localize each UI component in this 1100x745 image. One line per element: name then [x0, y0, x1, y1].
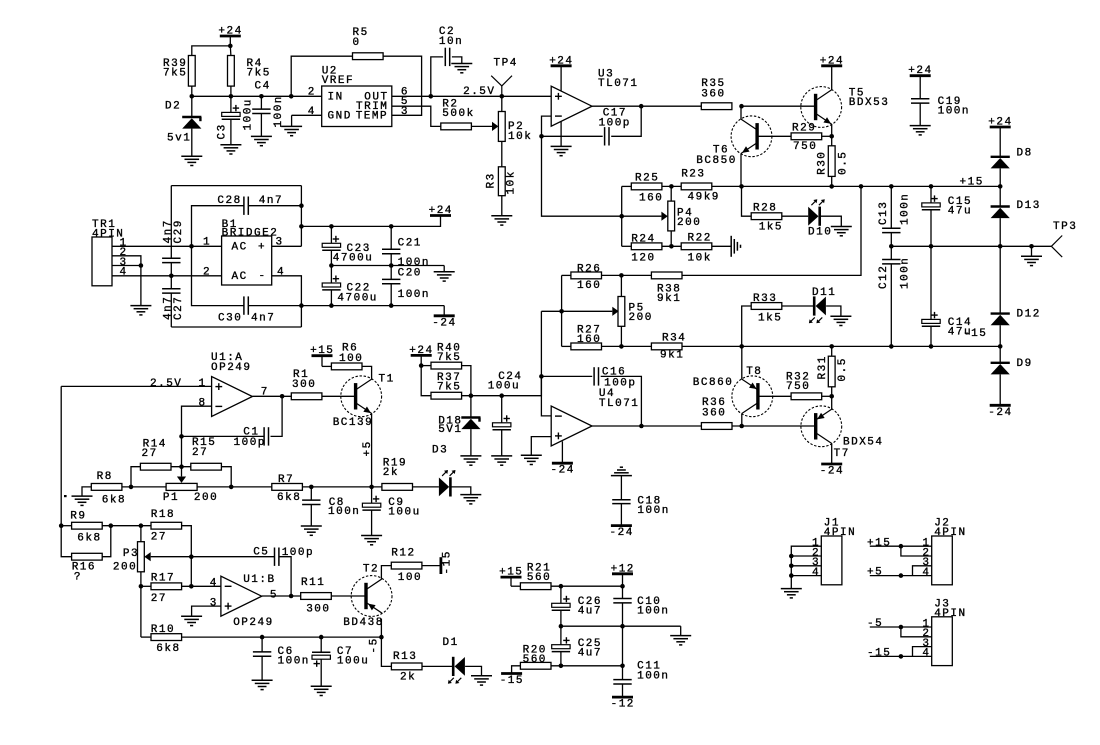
svg-text:6k8: 6k8	[277, 492, 301, 504]
svg-text:-15: -15	[442, 550, 454, 574]
svg-text:6k8: 6k8	[156, 643, 180, 655]
resistor R38 9k1	[651, 272, 682, 305]
svg-text:0: 0	[353, 37, 361, 49]
wire P5 bottom lead	[620, 326, 622, 346]
svg-text:+24: +24	[820, 55, 844, 67]
svg-text:100p: 100p	[282, 547, 314, 559]
junction R17 left	[139, 584, 144, 589]
wire U1A out	[252, 395, 291, 397]
junction C26 top	[559, 584, 564, 589]
wire 2.5V left vertical	[60, 386, 62, 525]
svg-text:BRIDGE2: BRIDGE2	[222, 227, 279, 239]
wire +15 row	[741, 185, 1000, 187]
svg-text:6k8: 6k8	[77, 533, 101, 545]
svg-text:C5: C5	[253, 547, 269, 559]
svg-text:1k5: 1k5	[758, 312, 782, 324]
svg-text:7k5: 7k5	[437, 352, 461, 364]
wire riser to P1 wiper	[181, 436, 183, 476]
power -24 rail right	[990, 404, 1011, 407]
svg-text:+15: +15	[310, 345, 334, 357]
svg-text:27: 27	[142, 448, 158, 460]
wire pins to gnd	[140, 266, 142, 306]
svg-text:100: 100	[339, 353, 363, 365]
svg-text:+12: +12	[611, 563, 635, 575]
junction R31 R32 T7	[829, 394, 834, 399]
svg-text:3: 3	[401, 106, 409, 118]
junction 2.5V node	[500, 94, 505, 99]
wire J3 pin1 -5	[870, 626, 932, 628]
wire to -24	[443, 306, 445, 316]
potentiometer P5 200	[612, 297, 653, 327]
svg-text:4: 4	[812, 567, 820, 579]
svg-text:C28: C28	[217, 195, 241, 207]
connector TR1 4PIN	[92, 219, 128, 286]
svg-text:-24: -24	[551, 465, 575, 477]
potentiometer P2 10k	[492, 112, 532, 143]
junction C11 top	[620, 624, 625, 629]
wire bottom frame	[171, 326, 301, 328]
svg-text:BC860: BC860	[693, 377, 734, 389]
wire to R28	[742, 186, 752, 216]
svg-text:4u7: 4u7	[578, 647, 602, 659]
svg-text:6k8: 6k8	[102, 495, 126, 507]
wire D10 cathode to gnd	[820, 216, 842, 226]
wire R4 bottom	[230, 86, 232, 96]
wire R33 to D11	[782, 305, 814, 307]
wire T8 collector down	[741, 414, 743, 427]
svg-text:100n: 100n	[328, 506, 360, 518]
svg-text:1: 1	[203, 237, 211, 249]
wire J2 pin1 +15	[870, 545, 932, 547]
svg-text:4: 4	[277, 266, 285, 278]
wire J2 pin4 +5	[870, 575, 932, 577]
junction U3 out	[639, 104, 644, 109]
ground C6	[252, 679, 273, 681]
svg-text:100u: 100u	[337, 656, 369, 668]
wire P5 top lead	[620, 275, 622, 296]
capacitor C26 4u7	[552, 586, 602, 626]
capacitor C30 4n7	[192, 246, 302, 324]
svg-text:100u: 100u	[388, 507, 420, 519]
wire R26 right	[602, 274, 622, 276]
wire U2 pin5 TRIM to R2	[392, 106, 441, 126]
svg-text:10k: 10k	[688, 252, 712, 264]
svg-text:C4: C4	[255, 81, 271, 93]
LED D10	[808, 199, 832, 238]
resistor R25 160	[631, 173, 663, 205]
svg-text:0.5: 0.5	[837, 357, 849, 381]
svg-text:1: 1	[199, 378, 207, 390]
junction	[259, 94, 264, 99]
junction P1 left	[129, 485, 134, 490]
wire T6 collector up	[740, 106, 742, 119]
junction P4 bottom	[669, 244, 674, 249]
wire D9 to -24	[999, 374, 1001, 405]
capacitor C7 100u	[312, 637, 369, 686]
svg-text:200: 200	[677, 217, 701, 229]
svg-text:+24: +24	[908, 65, 932, 77]
ground C24	[491, 455, 512, 457]
wire R24 left	[622, 245, 632, 247]
svg-text:-: -	[259, 270, 267, 282]
resistor R1 300	[291, 369, 322, 399]
transistor T5 BDX53	[801, 87, 890, 128]
svg-text:560: 560	[523, 654, 547, 666]
wire R36 to T7 base/T8	[732, 425, 816, 427]
svg-text:C30: C30	[218, 312, 242, 324]
junction -15 row C14	[929, 344, 934, 349]
junction J3 p4	[899, 654, 904, 659]
stray dot	[64, 495, 67, 497]
svg-text:R12: R12	[391, 548, 415, 560]
ground C8	[301, 525, 322, 527]
transistor T2 BD438	[343, 563, 392, 628]
op-amp U1:A OP249	[199, 352, 269, 416]
svg-text:T8: T8	[746, 366, 762, 378]
junction +15 C15	[929, 184, 934, 189]
svg-text:0.5: 0.5	[838, 151, 850, 175]
capacitor C2 10n	[431, 26, 463, 96]
wire B1 pin3	[272, 245, 302, 247]
wire R15 right down	[221, 467, 231, 487]
junction C16 row	[539, 374, 544, 379]
svg-text:360: 360	[701, 88, 725, 100]
junction C8	[309, 485, 314, 490]
wire C28 right	[248, 205, 301, 207]
wire D1 to gnd	[465, 666, 481, 675]
resistor R17 27	[151, 573, 182, 605]
junction C1 R14 riser	[179, 434, 184, 439]
svg-text:500k: 500k	[442, 108, 474, 120]
wire TR1 pin3	[112, 265, 141, 267]
wire R11 to T2 base	[331, 595, 365, 597]
zener diode D2	[165, 96, 201, 156]
svg-text:TEMP: TEMP	[356, 111, 388, 123]
svg-text:100p: 100p	[599, 117, 631, 129]
resistor R24 120	[631, 233, 662, 264]
svg-text:T2: T2	[363, 563, 379, 575]
junction +15 row R30	[829, 184, 834, 189]
wire 2.5V to U1A +	[61, 385, 211, 387]
junction C20 top	[389, 263, 394, 268]
svg-text:27: 27	[151, 532, 167, 544]
junction J2 p4	[899, 573, 904, 578]
wire U3 inv input	[542, 116, 552, 136]
ground R8	[72, 495, 93, 497]
svg-text:D13: D13	[1017, 200, 1041, 212]
resistor R16 6k8	[72, 553, 103, 583]
op-amp U4 TL071	[551, 388, 639, 446]
power -24 C18	[611, 524, 632, 527]
junction +15 row T6	[739, 184, 744, 189]
svg-text:+24: +24	[549, 55, 573, 67]
wire B1 right vertical	[300, 186, 302, 247]
resistor R10 6k8	[151, 624, 182, 655]
resistor R5 0	[353, 27, 384, 59]
junction -15 row T8	[739, 344, 744, 349]
wire T8 emitter up	[741, 346, 743, 379]
junction pin2-pin3	[139, 263, 144, 268]
ground D10	[831, 226, 852, 228]
junction P4 top	[669, 184, 674, 189]
junction T5 emitter R29 R30	[829, 134, 834, 139]
ground U3	[551, 145, 572, 147]
resistor R37 7k5	[431, 372, 462, 399]
wire mid to gnd	[443, 266, 445, 272]
power -24 T7	[821, 463, 842, 466]
wire U2 pin4	[292, 114, 322, 116]
svg-text:R8: R8	[97, 471, 113, 483]
wire P4 top lead	[670, 186, 672, 201]
resistor R18 27	[151, 509, 182, 543]
svg-text:-15: -15	[963, 328, 987, 340]
junction R18 riser	[189, 584, 194, 589]
wire TR1 pin2	[112, 256, 141, 266]
potentiometer P4 200	[622, 201, 702, 231]
wire C5 left	[191, 556, 274, 558]
svg-text:100n: 100n	[398, 289, 430, 301]
ground R22 rotated	[730, 236, 732, 257]
diode D13	[991, 200, 1041, 218]
capacitor C6 100n	[253, 637, 310, 680]
wire C2 right	[452, 57, 462, 64]
wire T6 base to R29	[757, 135, 791, 137]
junction P5 bottom	[619, 344, 624, 349]
transistor T1 BC139	[333, 373, 395, 429]
svg-text:360: 360	[702, 407, 726, 419]
svg-text:7k5: 7k5	[437, 381, 461, 393]
svg-text:R7: R7	[278, 474, 294, 486]
wire mid to D12	[999, 246, 1001, 313]
resistor R7 6k8	[272, 474, 303, 504]
op-amp U1:B OP249	[210, 574, 278, 629]
svg-text:C27: C27	[173, 296, 185, 320]
wire R18 right down	[182, 526, 192, 587]
wire R31 top	[831, 346, 833, 356]
wire C1 left	[182, 435, 265, 437]
capacitor C21 100n	[382, 226, 430, 269]
wire R17 to U1B inv	[182, 585, 221, 587]
capacitor C18 100n	[611, 467, 670, 525]
wire U2 pin6 OUT to 2.5V node	[392, 95, 502, 97]
test point TP4	[491, 58, 518, 97]
wire R26-R27 vertical	[561, 275, 563, 346]
svg-text:-24: -24	[432, 317, 456, 329]
junction	[289, 94, 294, 99]
power -12	[611, 697, 635, 711]
wire R32 to R31	[822, 395, 832, 397]
wire R22 to gnd	[712, 245, 731, 247]
svg-text:TP3: TP3	[1053, 221, 1077, 233]
capacitor C5 100p	[191, 547, 314, 597]
junction T6 collector	[739, 104, 744, 109]
junction R4 top	[228, 44, 233, 49]
wire R16 left	[61, 526, 71, 557]
wire -24 row B1 block	[301, 305, 444, 307]
svg-text:D2: D2	[165, 101, 181, 113]
ground C19	[910, 125, 931, 127]
wire -15 to D9	[999, 346, 1001, 362]
wire 2.5V to P2	[501, 96, 503, 111]
wire -5 to R13	[381, 637, 391, 666]
wire R28 to D10	[782, 215, 808, 217]
wire R30 bottom	[831, 176, 833, 186]
capacitor C13 100n	[878, 186, 912, 246]
wire R20 row	[551, 665, 623, 667]
ground C4	[251, 135, 272, 137]
wire top frame	[171, 185, 301, 187]
wire R35 out to T5 base	[742, 105, 816, 107]
ground C2	[451, 63, 472, 65]
svg-text:R28: R28	[753, 202, 777, 214]
wire J1 pin3	[791, 565, 821, 567]
junction J1 p2	[789, 554, 794, 559]
svg-text:4PIN: 4PIN	[934, 608, 966, 620]
svg-text:R24: R24	[631, 233, 655, 245]
junction C2 tap	[429, 94, 434, 99]
svg-text:R18: R18	[151, 509, 175, 521]
svg-text:27: 27	[192, 447, 208, 459]
junction J1 p3	[789, 564, 794, 569]
connector J3 4PIN	[922, 598, 966, 665]
resistor R35 360	[701, 78, 732, 110]
svg-text:4PIN: 4PIN	[934, 527, 966, 539]
capacitor C25 4u7	[552, 626, 602, 666]
svg-text:C21: C21	[398, 237, 422, 249]
wire mid row B1 block	[331, 265, 444, 267]
wire R3 to gnd	[501, 196, 503, 216]
svg-text:-24: -24	[610, 527, 634, 539]
svg-text:+24: +24	[429, 205, 453, 217]
ground D18	[460, 455, 481, 457]
junction T8 R36	[739, 424, 744, 429]
junction C6	[260, 635, 265, 640]
junction mid gnd	[1029, 244, 1034, 249]
svg-text:C3: C3	[217, 123, 229, 139]
svg-text:R11: R11	[301, 577, 325, 589]
svg-text:R9: R9	[70, 510, 86, 522]
svg-text:120: 120	[631, 252, 655, 264]
capacitor C24 100u	[488, 371, 523, 456]
wire P2 to R3	[501, 141, 503, 166]
wire P3 wiper row	[151, 556, 192, 558]
svg-text:100n: 100n	[273, 95, 285, 127]
wire C17 right	[611, 106, 641, 136]
capacitor C19 100n	[908, 65, 970, 125]
svg-text:10k: 10k	[508, 131, 532, 143]
capacitor C27 4n7	[162, 276, 185, 327]
svg-text:10k: 10k	[506, 170, 518, 194]
svg-text:2: 2	[203, 266, 211, 278]
wire C5 right down	[279, 557, 291, 596]
wire mid to gnd	[680, 626, 682, 635]
svg-text:8: 8	[199, 398, 207, 410]
junction J2 p1	[899, 544, 904, 549]
svg-text:AC: AC	[232, 271, 248, 283]
capacitor C4 100n	[252, 81, 285, 137]
svg-text:160: 160	[577, 280, 601, 292]
junction	[229, 94, 234, 99]
ground C3	[220, 144, 241, 146]
resistor R36 360	[701, 397, 732, 429]
wire R21 to C10 col	[551, 585, 623, 587]
wire J3 pin2 up	[901, 627, 932, 637]
junction U1A out	[280, 394, 285, 399]
power +15 R21	[499, 567, 523, 587]
svg-text:1k5: 1k5	[759, 222, 783, 234]
junction C28 right	[299, 203, 304, 208]
wire R13 to D1	[422, 665, 453, 667]
junction R16 right	[109, 523, 114, 528]
svg-text:R22: R22	[688, 232, 712, 244]
ground D11	[830, 315, 851, 317]
capacitor C10 100n	[613, 586, 669, 626]
resistor R12 100	[391, 548, 422, 585]
capacitor C29 4n7	[162, 186, 185, 276]
svg-text:-5: -5	[867, 618, 883, 630]
svg-text:TL071: TL071	[598, 78, 639, 90]
capacitor C9 100u	[362, 487, 420, 536]
wire J1 pin4	[791, 575, 821, 577]
resistor R13 2k	[391, 651, 422, 683]
junction +5 C9	[369, 485, 374, 490]
svg-text:9k1: 9k1	[657, 293, 681, 305]
junction C7	[319, 635, 324, 640]
wire C16 right to U4 out	[601, 376, 642, 426]
resistor R3 10k	[486, 167, 518, 196]
wire J2 pin3 down	[913, 566, 932, 576]
svg-text:4: 4	[922, 648, 930, 660]
svg-text:47u: 47u	[948, 206, 972, 218]
svg-text:+15: +15	[867, 537, 891, 549]
wire U4 out to R36	[592, 425, 701, 427]
svg-text:+: +	[258, 241, 266, 253]
wire TR1 pin4 to B1 pin2	[112, 275, 222, 277]
diode D8	[991, 147, 1033, 168]
svg-text:5v1: 5v1	[167, 132, 191, 144]
svg-text:300: 300	[306, 604, 330, 616]
svg-text:?: ?	[74, 572, 82, 584]
svg-text:R17: R17	[151, 573, 175, 585]
capacitor C8 100n	[302, 487, 360, 526]
wire R16 right up	[102, 526, 111, 557]
wire B1 pin4 down	[272, 276, 302, 327]
svg-text:D9: D9	[1017, 358, 1033, 370]
wire mid 0V row	[891, 245, 1051, 247]
svg-text:2k: 2k	[383, 467, 399, 479]
capacitor C23 4700u	[322, 226, 373, 265]
junction +15 row R38	[859, 184, 864, 189]
svg-text:100u: 100u	[243, 98, 255, 130]
wire D13 to mid	[999, 218, 1001, 246]
wire R14 left down	[131, 467, 140, 487]
capacitor C11 100n	[613, 626, 669, 697]
svg-text:P1: P1	[163, 492, 179, 504]
svg-text:4n7: 4n7	[251, 312, 275, 324]
ground D1	[471, 675, 492, 677]
svg-text:+15: +15	[499, 567, 523, 579]
capacitor C14 47u	[922, 246, 972, 346]
junction C25 bottom	[559, 664, 564, 669]
wire T6 emitter down	[740, 154, 742, 187]
wire J2 pin2 up	[901, 546, 932, 556]
resistor R26 160	[571, 264, 602, 292]
power +24 rail top-left	[218, 26, 242, 46]
ground U4 +	[521, 454, 542, 456]
svg-text:IN: IN	[328, 91, 344, 103]
resistor R23 49k9	[681, 168, 720, 203]
wire from U4 inv riser	[541, 310, 561, 312]
